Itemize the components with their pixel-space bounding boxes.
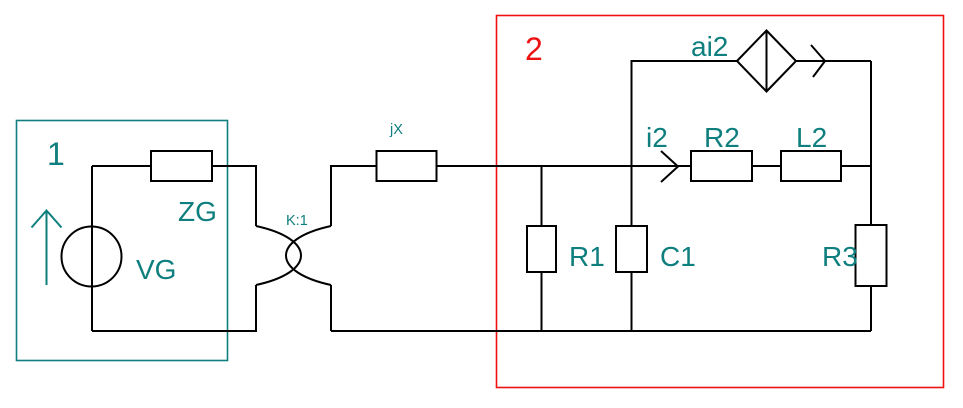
svg-text:R3: R3 xyxy=(822,241,858,272)
svg-text:ZG: ZG xyxy=(178,196,217,227)
svg-text:1: 1 xyxy=(47,136,65,172)
svg-text:L2: L2 xyxy=(796,122,827,153)
svg-text:i2: i2 xyxy=(646,122,668,153)
svg-text:R2: R2 xyxy=(704,122,740,153)
svg-text:2: 2 xyxy=(525,31,543,67)
svg-text:C1: C1 xyxy=(660,241,696,272)
svg-text:ai2: ai2 xyxy=(691,31,728,62)
svg-text:R1: R1 xyxy=(569,241,605,272)
svg-text:jX: jX xyxy=(389,122,403,138)
svg-text:K:1: K:1 xyxy=(286,213,308,229)
svg-text:VG: VG xyxy=(136,254,176,285)
